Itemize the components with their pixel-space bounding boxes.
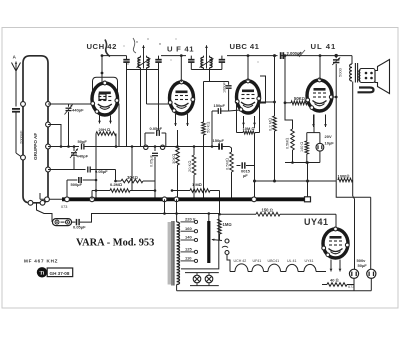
svg-text:UF41: UF41 — [253, 259, 262, 263]
node bus-0 — [45, 197, 50, 202]
label heater UL41 — [287, 259, 296, 263]
capacitor 0015 — [237, 133, 255, 200]
node bus-5 — [252, 197, 257, 202]
pilot lamp 2 — [205, 275, 213, 283]
svg-text:0.5MΩ: 0.5MΩ — [286, 138, 290, 149]
label 2000pF coupling — [287, 51, 303, 56]
node rail-4 — [319, 54, 322, 57]
label 20V10uF — [325, 134, 335, 145]
svg-text:20V: 20V — [325, 134, 332, 139]
label 0.2M vert — [268, 118, 273, 131]
capacitor 0.05uF osc — [88, 167, 116, 173]
dial lamp unit — [53, 219, 72, 226]
label 500uF — [71, 182, 83, 187]
capacitor 50pF — [82, 144, 84, 150]
label 073-left — [61, 205, 67, 209]
resistor 20K vert — [192, 147, 196, 200]
wire lamps — [185, 269, 219, 286]
node loop-right-1 — [46, 102, 51, 107]
potentiometer 1M — [207, 214, 222, 269]
label 0.5M vert — [225, 158, 230, 170]
svg-text:5000: 5000 — [338, 67, 343, 77]
svg-text:150 Ω: 150 Ω — [262, 208, 273, 213]
label 0.05uF if — [150, 126, 163, 131]
label heater UF41 — [253, 259, 262, 263]
pen mark 2 — [133, 38, 136, 53]
IF transformer 1 — [123, 45, 161, 69]
wire xfmr bottom — [177, 286, 300, 291]
wire primary box — [181, 214, 219, 269]
svg-text:073: 073 — [61, 205, 67, 209]
capacitor 500uF — [67, 177, 96, 197]
resistor 140 vert — [305, 133, 309, 163]
svg-text:30KΩ: 30KΩ — [171, 154, 176, 164]
label 440pF-1 — [72, 108, 84, 113]
electrolytic C2 — [367, 197, 376, 290]
electrolytic C1 — [349, 269, 358, 291]
node bus-3 — [162, 197, 167, 202]
label 50K vert — [206, 122, 211, 133]
wire 50pf-right — [84, 146, 116, 148]
label heater UCH42 — [234, 259, 247, 263]
resistor 0.5M vert — [230, 147, 234, 200]
heater UCH42 — [98, 116, 112, 124]
svg-text:440pF: 440pF — [77, 154, 89, 159]
heater UL41 — [312, 115, 327, 128]
antenna A — [12, 55, 21, 107]
capacitor 0.05uF vert — [152, 147, 158, 200]
label 073-right — [348, 285, 354, 289]
tube UCH42 — [91, 56, 119, 115]
label MF467 — [24, 259, 58, 264]
svg-text:µF: µF — [243, 173, 248, 178]
wire bottom-right — [300, 290, 371, 292]
label 100pF — [223, 82, 227, 93]
node loop-right-3 — [46, 144, 51, 149]
electrolytic 20V10uF — [316, 133, 324, 163]
svg-text:1 MΩ: 1 MΩ — [192, 182, 202, 187]
node loop-left-2 — [21, 155, 26, 160]
svg-text:GH 37-08: GH 37-08 — [50, 271, 70, 276]
node loop-right-4 — [46, 167, 51, 172]
wire bplus-top — [370, 268, 373, 270]
wire tap4 — [48, 169, 86, 171]
capacitor grid UBC — [204, 82, 241, 112]
wire tap2 — [48, 125, 61, 147]
svg-text:UBC 41: UBC 41 — [230, 42, 260, 51]
label 0.05uF dial — [73, 225, 86, 230]
output transformer — [350, 56, 358, 83]
gruppo AF box — [23, 56, 48, 203]
wire uy-heater-join — [326, 272, 340, 278]
svg-text:0.05µF: 0.05µF — [150, 126, 163, 131]
node loop-right-2 — [46, 122, 51, 127]
heater UY41 — [330, 260, 342, 272]
svg-text:140: 140 — [185, 235, 192, 240]
svg-text:1MΩ: 1MΩ — [223, 222, 232, 227]
node loop-left-1 — [21, 102, 26, 107]
resistor 1000 — [253, 163, 371, 270]
capacitor 5000 — [332, 56, 340, 177]
svg-text:073: 073 — [348, 285, 354, 289]
label 110 — [185, 256, 192, 261]
heater chain — [227, 255, 326, 272]
svg-text:40 Ω: 40 Ω — [330, 278, 339, 283]
label 220V — [185, 217, 196, 222]
resistor 1M vert2 — [218, 214, 222, 240]
svg-text:150µF: 150µF — [213, 138, 225, 143]
wire uch-left-pin — [92, 103, 94, 105]
heater UF41 — [174, 114, 189, 126]
svg-text:100pF: 100pF — [223, 82, 227, 93]
label 140 — [300, 142, 304, 152]
svg-text:UL 41: UL 41 — [311, 42, 337, 51]
wire lv-rail — [97, 199, 219, 213]
label 30K vert — [171, 154, 176, 164]
svg-text:125: 125 — [185, 247, 192, 252]
tube UL41 — [306, 56, 338, 111]
svg-text:0.05µF: 0.05µF — [150, 154, 154, 167]
wire bus-drops — [92, 180, 96, 199]
svg-text:2.000pF: 2.000pF — [287, 51, 303, 56]
node bus-1 — [65, 197, 70, 202]
label 0.5M ul — [286, 138, 290, 149]
resistor 0.2M — [96, 182, 130, 192]
IF transformer 2 — [188, 45, 225, 69]
resistor 0.2M vert — [260, 54, 277, 181]
resistor 10M — [237, 102, 260, 134]
tube UY41 — [322, 214, 349, 258]
svg-text:UBC41: UBC41 — [268, 259, 280, 263]
resistor 150 — [219, 208, 336, 229]
label 125 — [185, 247, 192, 252]
wire ubc-drops — [244, 125, 255, 128]
wire grid-top — [48, 103, 93, 105]
svg-text:UY41: UY41 — [304, 217, 329, 227]
label 150uF-1 — [212, 103, 229, 147]
wire mid-h1 — [132, 146, 230, 148]
svg-text:140 Ω: 140 Ω — [300, 142, 304, 152]
svg-text:440pF: 440pF — [72, 108, 84, 113]
pen mark 3 — [297, 50, 305, 57]
resistor 50K vert — [202, 82, 206, 200]
label 500V — [357, 258, 368, 268]
pilot lamp 1 — [193, 275, 201, 283]
label 160 — [185, 226, 192, 231]
wire bus-left — [40, 193, 62, 199]
svg-text:0.2 MΩ: 0.2 MΩ — [268, 118, 273, 131]
switch contact 2 — [225, 243, 229, 255]
label UBC41 — [230, 42, 260, 51]
wire choke-right — [115, 134, 117, 147]
svg-text:110: 110 — [185, 256, 192, 261]
label 2000pF — [18, 130, 23, 144]
tube UBC41 — [235, 56, 265, 113]
capacitor 2000pF antenna — [12, 109, 23, 158]
label 0015 — [241, 169, 251, 179]
wire loop-bottom-drop — [37, 203, 53, 222]
wire tap3 — [48, 146, 79, 148]
label 140t — [185, 235, 192, 240]
label 1M vert — [223, 222, 232, 227]
node ul-top — [335, 54, 338, 57]
resistor 40 — [322, 272, 354, 287]
label 20K vert — [187, 161, 192, 172]
label GRUPPO AF — [33, 133, 38, 160]
variable capacitor 440pF-1 — [65, 104, 73, 147]
node bus-4 — [174, 197, 179, 202]
label UF41 — [167, 44, 194, 53]
svg-text:50pF: 50pF — [78, 139, 88, 144]
choke 20H — [96, 127, 116, 135]
wire 150u2 — [210, 191, 220, 215]
node loop-bottom-1 — [28, 200, 33, 205]
pen mark — [105, 40, 110, 57]
svg-text:50µF: 50µF — [358, 263, 368, 268]
node bus-2 — [90, 197, 95, 202]
svg-text:0.2MΩ: 0.2MΩ — [110, 182, 122, 187]
svg-text:GRUPPO AF: GRUPPO AF — [33, 133, 38, 160]
wire choke-left — [95, 134, 97, 200]
svg-text:U F 41: U F 41 — [167, 44, 194, 53]
label heater UBC41 — [268, 259, 280, 263]
label 0.05uF vert — [150, 154, 154, 167]
transformer taps — [181, 220, 198, 262]
speaker wire — [358, 88, 374, 93]
label 5000 — [338, 67, 343, 77]
svg-text:MF 467 KHZ: MF 467 KHZ — [24, 259, 58, 264]
heater UBC41 — [242, 116, 256, 126]
speaker — [359, 60, 390, 94]
svg-text:0.05µF: 0.05µF — [95, 169, 108, 174]
resistor 50K ul — [284, 54, 307, 105]
svg-text:UY41: UY41 — [305, 259, 314, 263]
junction dots — [60, 145, 309, 215]
label 440pF-2 — [77, 154, 89, 159]
switch contact 1 — [222, 239, 229, 248]
node rail-1 — [101, 54, 104, 57]
node rail-3 — [247, 54, 250, 57]
label UY41 big — [304, 217, 329, 227]
svg-text:0.05µF: 0.05µF — [73, 225, 86, 230]
capacitor 2000pF coupling — [281, 52, 284, 59]
power transformer — [165, 214, 180, 291]
label UCH42 — [87, 42, 117, 51]
svg-text:220 V: 220 V — [185, 217, 196, 222]
svg-text:0.5MΩ: 0.5MΩ — [225, 158, 230, 170]
label heater UY41 — [305, 259, 314, 263]
resistor 1M horiz — [172, 182, 210, 192]
svg-text:150µF: 150µF — [214, 103, 226, 108]
scan specks — [124, 38, 259, 64]
svg-text:Ti: Ti — [40, 272, 45, 277]
svg-text:UCH 42: UCH 42 — [234, 259, 247, 263]
svg-text:10µF: 10µF — [325, 140, 335, 145]
node loop-bottom-2 — [40, 200, 45, 205]
svg-text:UCH 42: UCH 42 — [87, 42, 117, 51]
label 50pF — [78, 139, 88, 144]
label UL41 — [311, 42, 337, 51]
wire top rail — [102, 55, 352, 57]
wire ul-cathode — [285, 115, 320, 163]
label 0.05uF osc — [95, 169, 108, 174]
svg-text:500µF: 500µF — [71, 182, 83, 187]
resistor 30K vert — [176, 130, 180, 199]
chassis bus bar — [62, 197, 311, 202]
wire 02m — [92, 190, 172, 192]
svg-text:VARA - Mod. 953: VARA - Mod. 953 — [76, 238, 154, 249]
wire uch-bottom-drop — [79, 169, 81, 171]
logo — [37, 267, 73, 277]
capacitor 0.05uF dial — [72, 214, 98, 226]
svg-text:160: 160 — [185, 226, 192, 231]
tube UF41 — [168, 56, 194, 114]
wire mid-drop1 — [116, 147, 132, 191]
svg-text:20 KΩ: 20 KΩ — [187, 161, 192, 172]
wire b-plus — [353, 82, 355, 270]
wire if-bottoms — [141, 70, 210, 147]
resistor 30K small — [116, 170, 156, 183]
capacitor 150uF-2 — [213, 138, 225, 150]
resistor 0.5M ul — [285, 103, 294, 163]
capacitor 0.05uF if — [119, 70, 166, 150]
svg-text:20H Ω: 20H Ω — [99, 127, 111, 132]
svg-text:UL 41: UL 41 — [287, 259, 296, 263]
node rail-2 — [180, 54, 183, 57]
label VARA — [76, 238, 154, 249]
variable capacitor 440pF-2 — [70, 147, 78, 170]
svg-text:50 KΩ: 50 KΩ — [206, 122, 211, 133]
